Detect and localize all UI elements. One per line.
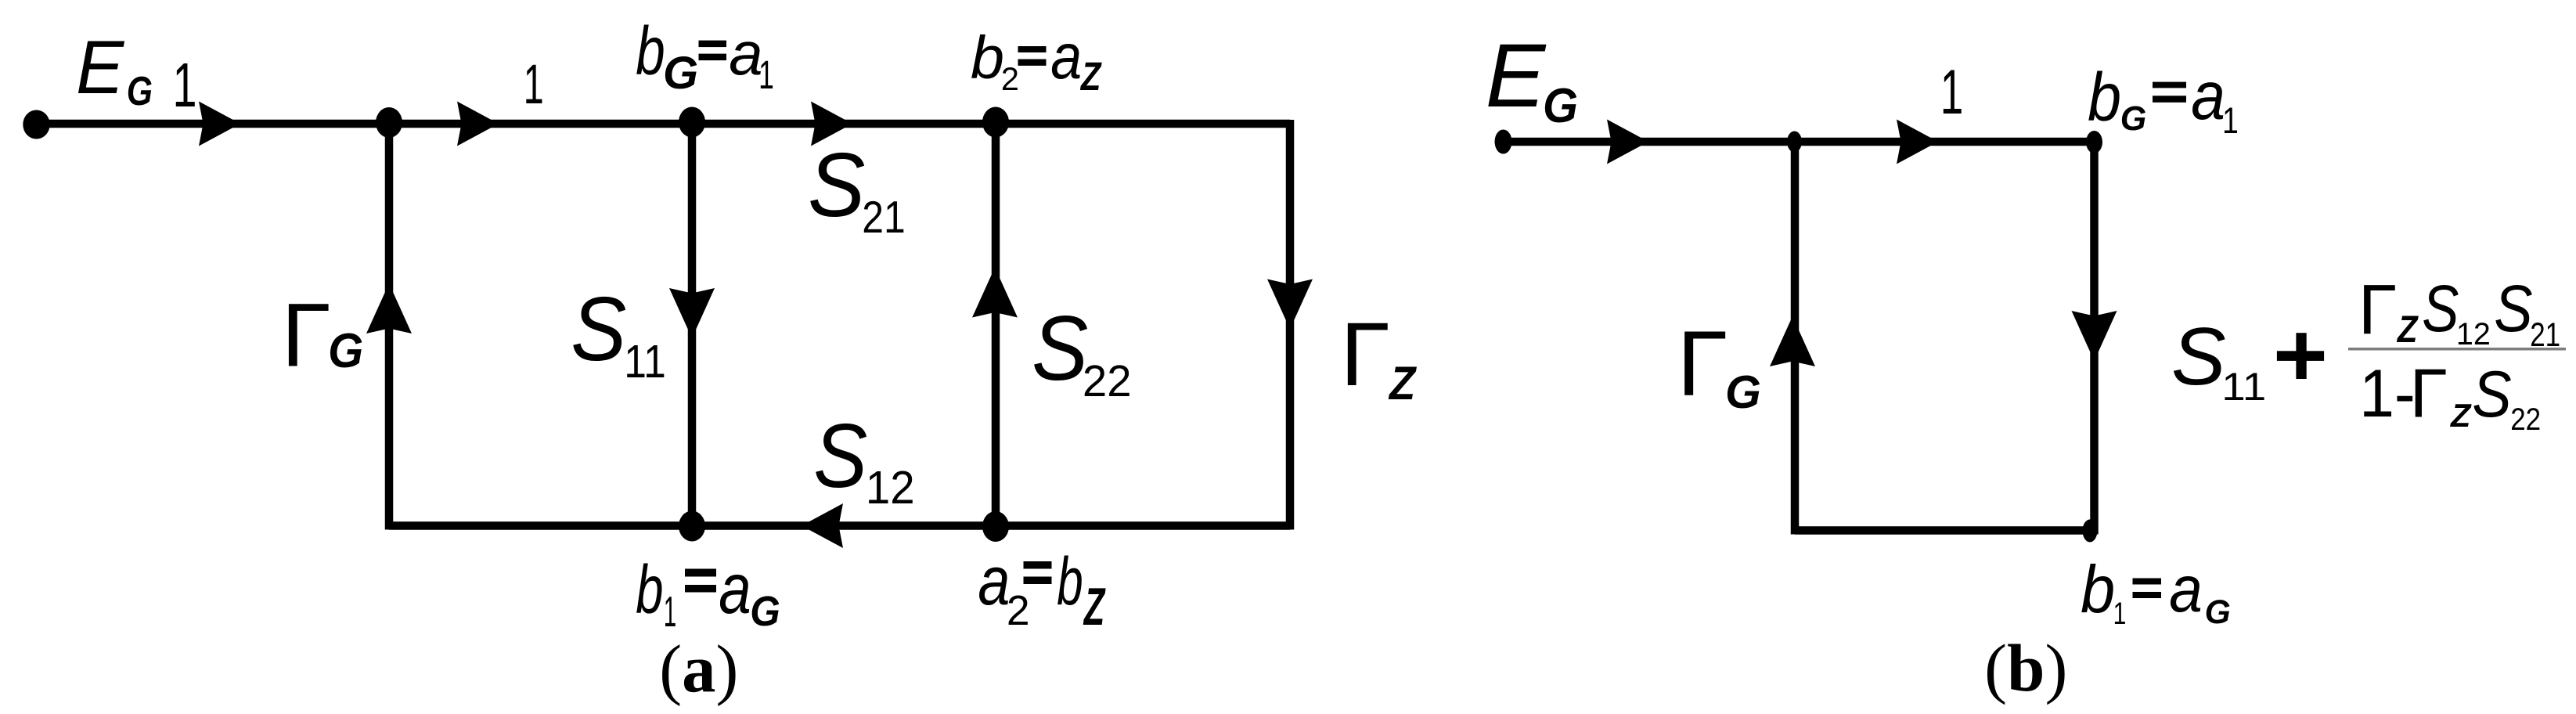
svg-text:Z: Z xyxy=(1388,356,1417,409)
svg-text:1: 1 xyxy=(1940,57,1964,128)
node: bG=a1 dot (a) xyxy=(679,107,705,138)
wire: right edge S11eq branch (b) xyxy=(2090,138,2099,535)
svg-text:G: G xyxy=(2120,100,2147,138)
arrow: S12 branch left (a) xyxy=(802,503,843,548)
wire: source to junction (a) xyxy=(36,120,389,128)
svg-text:S: S xyxy=(2494,271,2532,345)
svg-text:Γ: Γ xyxy=(2358,271,2398,349)
svg-text:11: 11 xyxy=(2221,365,2266,409)
svg-text:Z: Z xyxy=(1083,577,1105,636)
node: junction dot (b) xyxy=(1787,132,1802,153)
arrow: GammaZ branch down (a) xyxy=(1267,279,1313,330)
arrow: S11 branch down (a) xyxy=(669,288,715,338)
svg-text:(b): (b) xyxy=(1984,630,2067,705)
node: a2=bZ dot (a) xyxy=(982,511,1009,542)
wire: source to junction (b) xyxy=(1503,138,1795,146)
svg-text:a: a xyxy=(978,542,1010,619)
svg-text:12: 12 xyxy=(866,461,915,514)
svg-text:E: E xyxy=(76,26,125,110)
svg-text:11: 11 xyxy=(624,335,666,388)
svg-text:G: G xyxy=(328,324,363,378)
node: bG=a1 dot (b) xyxy=(2086,131,2102,153)
svg-text:1-: 1- xyxy=(2359,356,2416,431)
label: node b1=aG equals (a) xyxy=(685,569,716,593)
svg-text:b: b xyxy=(1057,544,1083,619)
svg-text:G: G xyxy=(1543,79,1578,133)
svg-text:b: b xyxy=(2081,553,2115,627)
arrow: S21 branch (a) xyxy=(811,102,852,146)
wire: bottom edge right part (a) xyxy=(996,521,1290,530)
svg-text:Γ: Γ xyxy=(1340,305,1390,405)
wire: junction to node bG=a1 (b) xyxy=(1795,138,2095,146)
svg-text:Γ: Γ xyxy=(2410,355,2448,432)
svg-text:22: 22 xyxy=(2510,402,2541,437)
arrow: source branch EG (a) xyxy=(199,102,240,146)
fraction bar of S11 equivalent formula (b) xyxy=(2348,348,2566,351)
svg-text:S: S xyxy=(808,134,865,236)
svg-text:2: 2 xyxy=(1001,60,1019,97)
wire: S22 branch (a) xyxy=(992,124,1000,526)
svg-text:a: a xyxy=(1050,21,1082,92)
svg-text:S: S xyxy=(1032,297,1088,399)
svg-text:b: b xyxy=(971,24,1004,92)
svg-text:S: S xyxy=(2472,358,2511,431)
svg-text:12: 12 xyxy=(2456,317,2491,352)
wire: node a2=bZ to node b1=aG (a) xyxy=(692,521,996,530)
svg-text:22: 22 xyxy=(1083,356,1132,406)
svg-text:1: 1 xyxy=(2113,597,2127,631)
svg-text:Γ: Γ xyxy=(1677,312,1728,415)
svg-text:(a): (a) xyxy=(659,632,738,707)
arrow: GammaG branch up (b) xyxy=(1770,316,1815,366)
svg-text:G: G xyxy=(1725,366,1761,418)
arrow: source branch EG (b) xyxy=(1607,120,1648,164)
svg-text:S: S xyxy=(813,405,867,507)
svg-text:2: 2 xyxy=(1007,588,1030,634)
node: source dot EG (a) xyxy=(23,110,49,139)
svg-text:b: b xyxy=(636,13,665,89)
svg-text:a: a xyxy=(2191,58,2225,134)
svg-text:b: b xyxy=(2088,59,2121,135)
svg-text:S: S xyxy=(2422,271,2459,345)
node: source dot EG (b) xyxy=(1495,130,1512,154)
svg-text:Z: Z xyxy=(1079,54,1102,99)
wire: bottom edge (b) xyxy=(1795,526,2095,535)
svg-text:1: 1 xyxy=(664,587,677,636)
svg-text:G: G xyxy=(663,48,698,99)
label: node b1=aG equals (b) xyxy=(2133,579,2162,599)
node: b1=aG dot (b) xyxy=(2083,520,2098,543)
arrow: S22 branch up (a) xyxy=(972,268,1018,318)
arrow: gain 1 branch (b) xyxy=(1897,120,1938,164)
svg-text:a: a xyxy=(2169,553,2203,626)
wire: node b2=aZ to top-right corner (a) xyxy=(996,120,1290,128)
wire: right edge GammaZ branch (a) xyxy=(1286,120,1295,530)
node: b1=aG dot (a) xyxy=(679,511,705,542)
svg-text:a: a xyxy=(729,19,762,88)
label: node a2=bZ equals (a) xyxy=(1024,561,1052,584)
wire: left edge GammaG branch (a) xyxy=(385,120,394,530)
svg-text:G: G xyxy=(2205,593,2231,631)
wire: S11 branch (a) xyxy=(688,124,697,526)
svg-text:Z: Z xyxy=(2396,309,2419,351)
arrow: S11eq branch down (b) xyxy=(2072,311,2117,361)
svg-text:S: S xyxy=(2171,311,2226,402)
wire: junction to node bG=a1 (a) xyxy=(389,120,692,128)
label: node b2=aZ equals (a) xyxy=(1018,46,1047,66)
label: node bG=a1 equals (b) xyxy=(2153,82,2186,103)
svg-text:21: 21 xyxy=(862,193,906,243)
node: junction dot (a) xyxy=(376,107,402,138)
svg-text:G: G xyxy=(750,588,780,635)
svg-text:a: a xyxy=(719,550,751,629)
svg-text:1: 1 xyxy=(2222,100,2239,142)
svg-text:b: b xyxy=(636,551,663,628)
svg-text:1: 1 xyxy=(173,50,197,120)
svg-text:S: S xyxy=(571,278,626,380)
arrow: gain 1 branch (a) xyxy=(457,102,499,146)
svg-text:G: G xyxy=(127,68,153,114)
label: formula plus (b) xyxy=(2277,333,2324,379)
wire: node bG=a1 to node b2=aZ (a) xyxy=(692,120,996,128)
arrow: GammaG branch up (a) xyxy=(366,283,412,334)
svg-text:1: 1 xyxy=(758,52,774,97)
svg-text:Z: Z xyxy=(2450,397,2472,434)
wire: node b1=aG to bottom-left corner (a) xyxy=(389,521,692,530)
label: node bG=a1 equals (a) xyxy=(699,41,727,61)
svg-text:Γ: Γ xyxy=(282,286,331,386)
node: b2=aZ dot (a) xyxy=(982,107,1009,138)
wire: left edge GammaG branch (b) xyxy=(1791,138,1800,535)
svg-text:1: 1 xyxy=(524,53,544,116)
svg-text:E: E xyxy=(1486,26,1547,126)
